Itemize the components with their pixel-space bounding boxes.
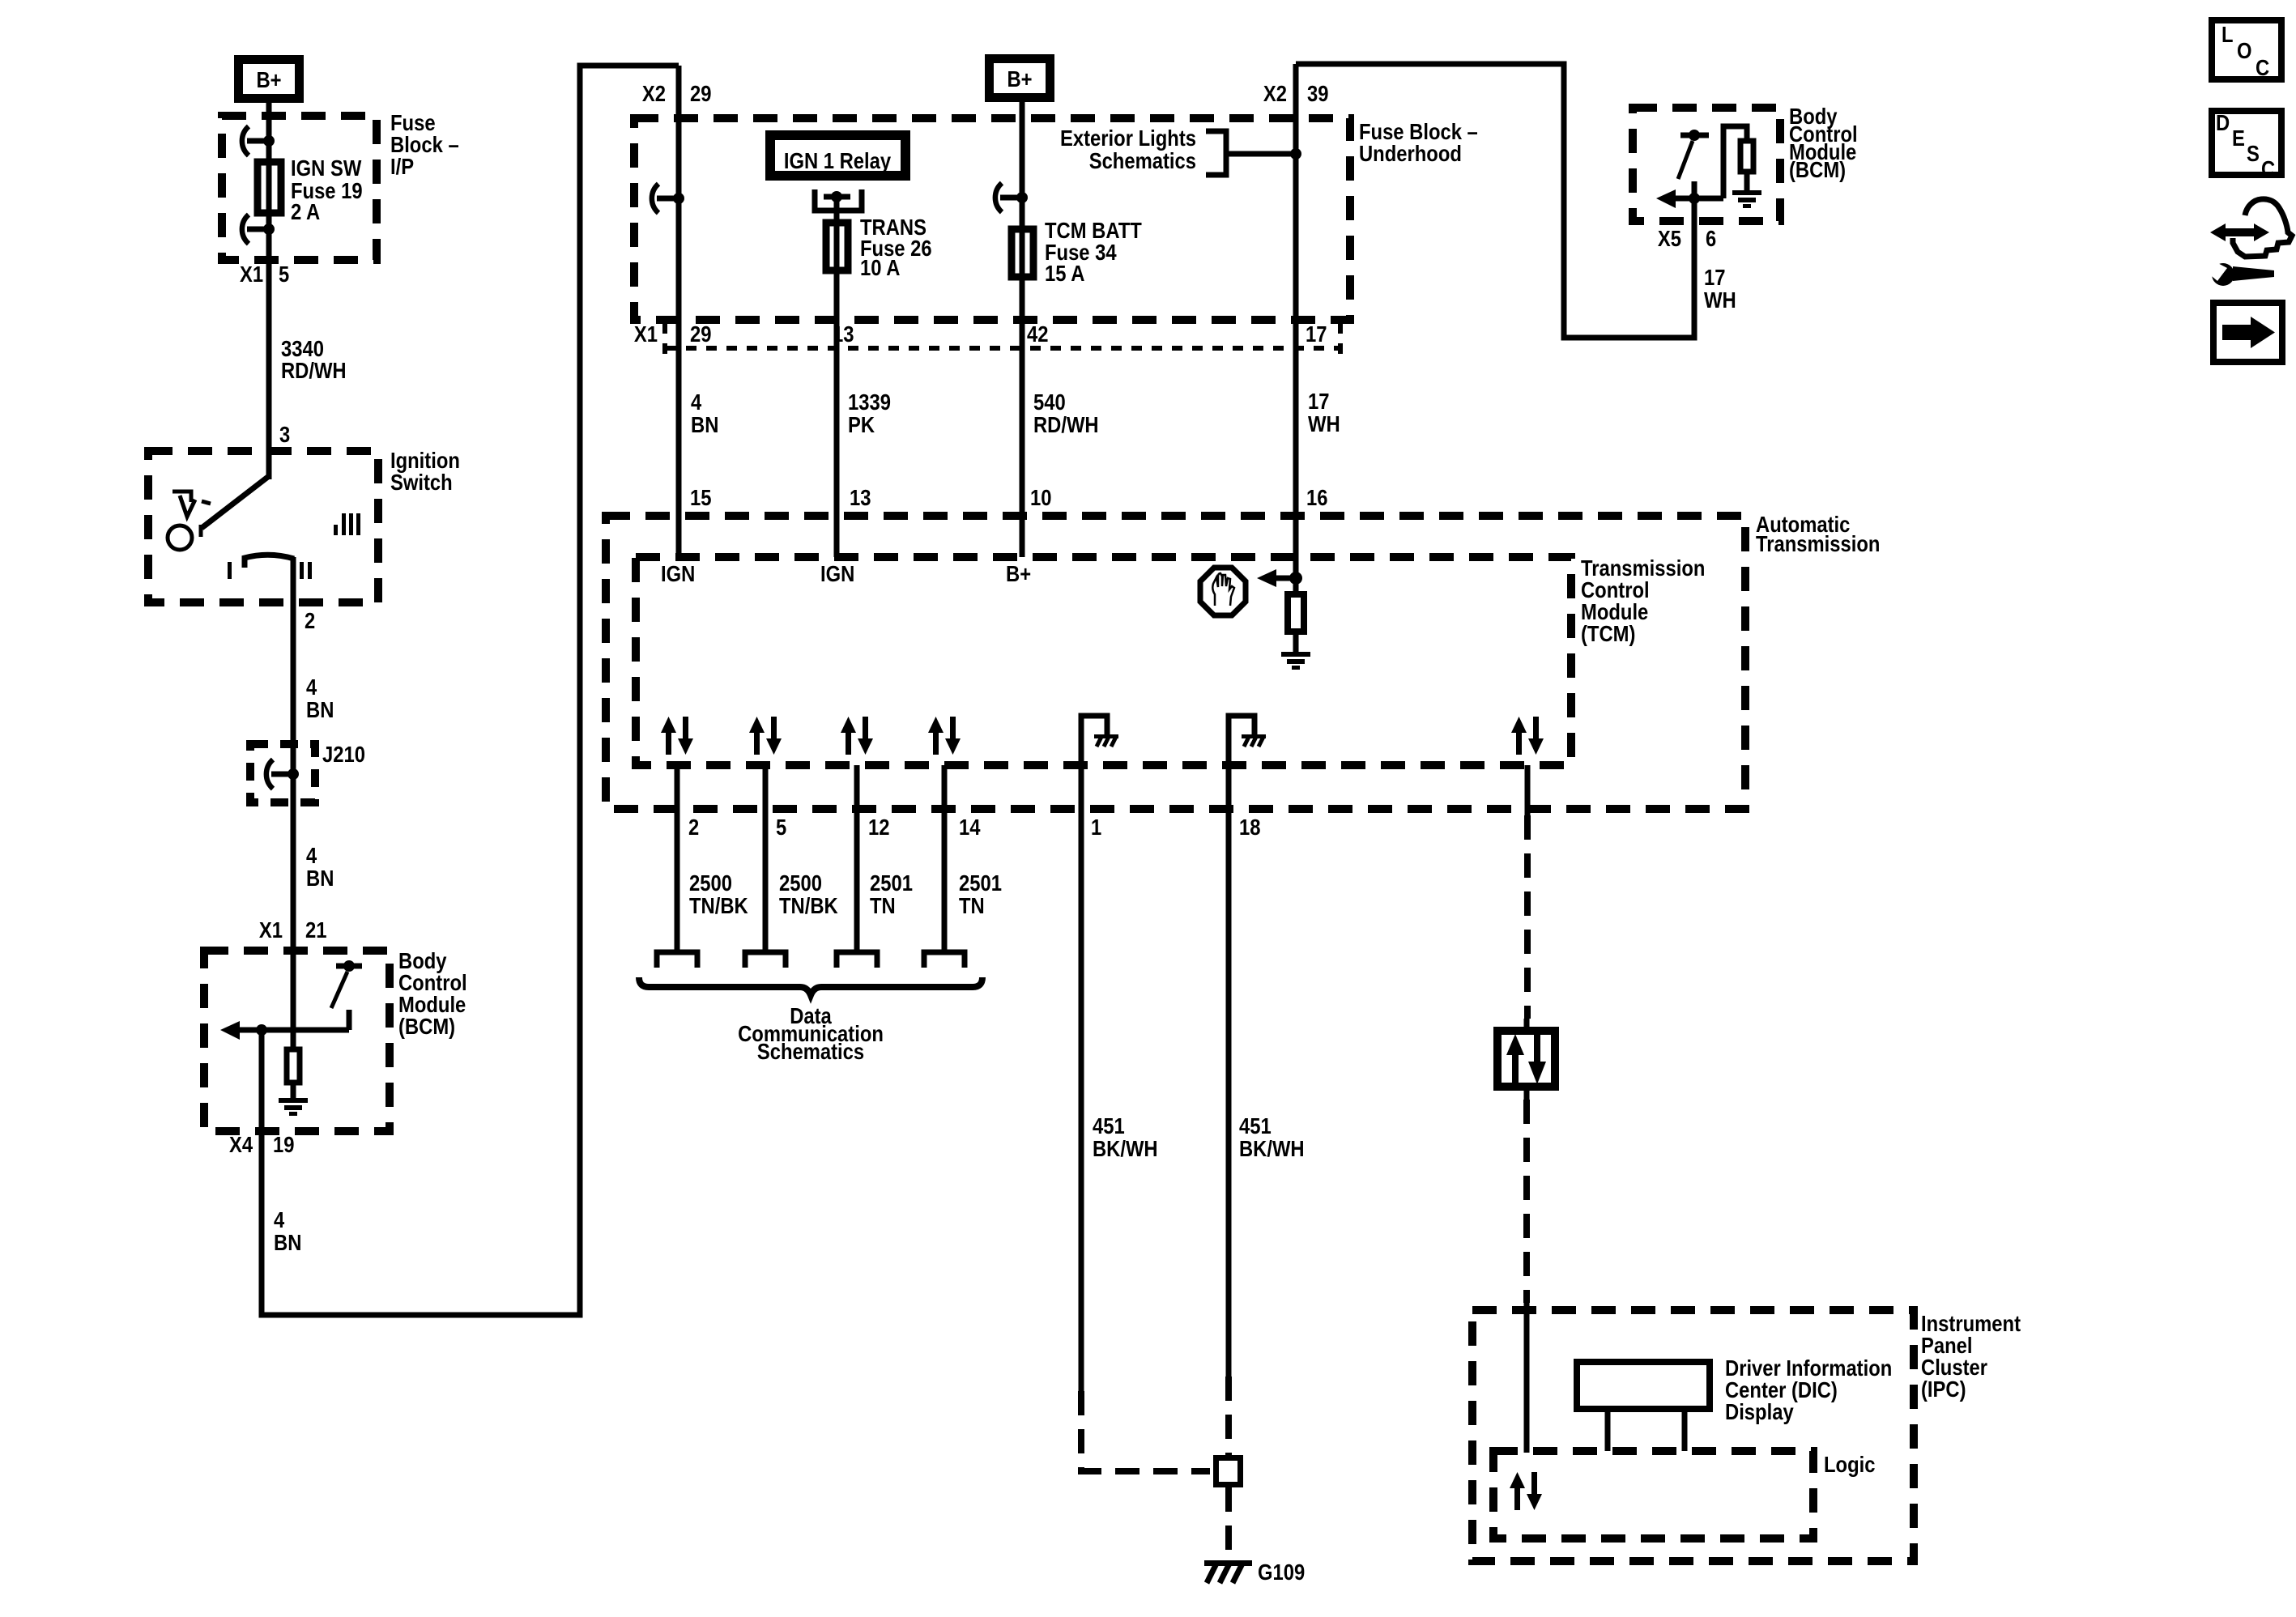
svg-text:RD/WH: RD/WH [1033, 412, 1099, 437]
svg-text:IGN: IGN [661, 561, 695, 586]
svg-text:1: 1 [1091, 815, 1101, 840]
label Body Control Module (BCM) left [398, 948, 467, 1039]
svg-text:WH: WH [1704, 287, 1736, 313]
svg-text:D: D [2216, 110, 2230, 135]
wire BCM X4-19 to fuse block underhood (long loop) [262, 66, 679, 1315]
connector X5 pin 6 [1658, 226, 1716, 251]
connector boundary tick left [662, 323, 667, 354]
svg-text:IGN SW: IGN SW [291, 155, 362, 181]
wire label 4 BN [274, 1207, 301, 1255]
svg-text:G109: G109 [1258, 1560, 1305, 1585]
svg-text:1339: 1339 [848, 389, 891, 415]
label Driver Information Center (DIC) Display [1725, 1355, 1892, 1424]
svg-text:WH: WH [1308, 411, 1340, 436]
wire label 2500 TN/BK pin 2 [689, 870, 748, 918]
wire label 451 BK/WH pin 1 [1093, 1113, 1158, 1161]
svg-text:(BCM): (BCM) [398, 1014, 455, 1039]
BCM internal ground [279, 1098, 308, 1116]
ignition switch blade [201, 476, 269, 537]
fuse 19 IGN SW 2A [258, 155, 363, 224]
wire TCM pin 14 [942, 765, 948, 952]
svg-text:13: 13 [850, 485, 871, 510]
svg-text:L: L [2221, 22, 2234, 47]
svg-text:21: 21 [305, 917, 327, 943]
ignition switch dashed box [148, 451, 378, 602]
B+ power symbol (left) [239, 60, 300, 99]
connector X4 pin 19 [229, 1132, 295, 1157]
wire ignition switch pin 2 to BCM [291, 557, 296, 1030]
connector terminal on wire 29 [652, 184, 684, 213]
wire TCM pin 5 [763, 765, 769, 952]
off-page bracket to exterior lights [1206, 131, 1301, 175]
svg-text:(IPC): (IPC) [1921, 1377, 1966, 1402]
connector X1 pin 21 [259, 917, 327, 943]
TCM serial data arrows pin 14 [928, 717, 961, 755]
svg-text:RD/WH: RD/WH [281, 358, 347, 383]
svg-text:IGN: IGN [820, 561, 854, 586]
svg-text:Exterior Lights: Exterior Lights [1060, 126, 1196, 151]
relay contact terminal [815, 189, 862, 211]
svg-text:BN: BN [306, 697, 334, 722]
wire label 4 BN [306, 674, 334, 722]
label Transmission Control Module (TCM) [1581, 555, 1705, 646]
svg-text:C: C [2256, 55, 2269, 80]
label Body Control Module (BCM) right [1789, 104, 1858, 182]
svg-text:O: O [2237, 38, 2252, 63]
TCM internal junction with arrow on pin 16 [1257, 569, 1302, 587]
svg-text:S: S [2247, 141, 2260, 166]
dashed wire splice to ground [1225, 1487, 1232, 1561]
TCM inner dashed box [636, 557, 1571, 765]
brace data communication [639, 977, 982, 995]
svg-text:Logic: Logic [1824, 1452, 1876, 1477]
svg-text:19: 19 [273, 1132, 295, 1157]
svg-text:4: 4 [306, 674, 317, 700]
BCM right internal ground [1732, 190, 1761, 208]
TCM serial data arrows pin 5 [749, 717, 782, 755]
off-page connector pin 5 [745, 952, 786, 968]
connector terminal on wire 42 [995, 183, 1028, 212]
svg-text:18: 18 [1239, 815, 1261, 840]
svg-text:2: 2 [688, 815, 699, 840]
TCM pin labels 2 5 12 14 1 18 [688, 815, 1261, 840]
svg-text:2500: 2500 [689, 870, 732, 896]
svg-text:2 A: 2 A [291, 199, 320, 224]
svg-text:3: 3 [279, 422, 290, 447]
switch position mark IIII [334, 513, 360, 535]
svg-text:I/P: I/P [390, 154, 414, 179]
svg-text:5: 5 [776, 815, 786, 840]
splice box [1216, 1458, 1241, 1485]
svg-text:B+: B+ [1007, 66, 1032, 91]
TCM input labels IGN IGN B+ [661, 561, 1031, 586]
wire label 4 BN [306, 843, 334, 891]
dashed wire link box to IPC [1523, 1100, 1530, 1303]
svg-text:X4: X4 [229, 1132, 253, 1157]
label Fuse Block Underhood [1359, 119, 1478, 166]
svg-text:B+: B+ [256, 67, 281, 92]
svg-text:IGN 1 Relay: IGN 1 Relay [784, 148, 892, 173]
svg-text:X2: X2 [642, 81, 666, 106]
svg-text:29: 29 [690, 81, 712, 106]
svg-text:15 A: 15 A [1045, 261, 1084, 286]
label Instrument Panel Cluster (IPC) [1921, 1311, 2021, 1402]
TCM serial data arrows pin 12 [841, 717, 873, 755]
svg-text:TN/BK: TN/BK [779, 893, 838, 918]
BCM internal rail with arrow [220, 1021, 349, 1040]
wire B+ to ignition switch [266, 103, 272, 479]
wire label 17 WH right [1704, 265, 1736, 313]
svg-text:6: 6 [1706, 226, 1716, 251]
dashed wire pin 1 to splice [1081, 1391, 1210, 1471]
logic dashed box [1493, 1451, 1813, 1538]
wire TCM pin 12 [854, 765, 860, 952]
label Automatic Transmission [1756, 512, 1880, 556]
svg-text:13: 13 [833, 321, 854, 347]
svg-text:39: 39 [1307, 81, 1329, 106]
wire TCM pin 18 451 BK/WH [1226, 765, 1232, 1377]
svg-text:C: C [2261, 156, 2275, 181]
wire 17 WH from BCM to X2-39 [1296, 64, 1694, 338]
svg-text:(TCM): (TCM) [1581, 621, 1635, 646]
margin icon arrow box [2213, 303, 2282, 362]
TCM internal ground return pin 18 [1229, 716, 1266, 765]
automatic transmission outer dashed box [606, 516, 1745, 809]
svg-text:B+: B+ [1006, 561, 1031, 586]
svg-text:BN: BN [274, 1230, 301, 1255]
label Fuse Block I/P [390, 110, 459, 179]
switch position mark II [300, 562, 312, 579]
wire label 2501 TN pin 12 [870, 870, 913, 918]
IGN 1 Relay label box [770, 135, 905, 176]
svg-text:TN: TN [959, 893, 985, 918]
splice J210 terminal [266, 760, 299, 789]
svg-text:4: 4 [274, 1207, 285, 1232]
connector dashed line X1 [666, 346, 1340, 351]
switch position mark I [228, 562, 232, 579]
svg-text:TN/BK: TN/BK [689, 893, 748, 918]
dashed wire pin 18 to splice [1225, 1377, 1232, 1455]
logic serial data arrows [1510, 1472, 1542, 1510]
svg-text:BN: BN [691, 412, 718, 437]
BCM internal switch [331, 960, 362, 1030]
svg-text:10 A: 10 A [860, 255, 900, 280]
TCM serial data arrows right [1511, 717, 1544, 755]
wire TCM pin 2 [675, 765, 680, 952]
label Data Communication Schematics [738, 1003, 884, 1064]
BCM (left) dashed box [204, 951, 390, 1131]
svg-text:15: 15 [690, 485, 712, 510]
BCM right internal switch [1678, 130, 1709, 198]
svg-text:2501: 2501 [959, 870, 1002, 896]
svg-text:451: 451 [1239, 1113, 1272, 1138]
BCM right rail with arrow [1656, 189, 1723, 208]
svg-text:Schematics: Schematics [757, 1039, 864, 1064]
TCM internal ground [1281, 652, 1310, 670]
dashed wire TCM to IPC logic [1525, 765, 1531, 815]
svg-text:Switch: Switch [390, 470, 453, 495]
B+ power symbol (middle) [990, 59, 1050, 98]
svg-text:E: E [2232, 126, 2245, 151]
splice J210 dashed box [250, 744, 315, 802]
wire label 451 BK/WH pin 18 [1239, 1113, 1305, 1161]
ground G109 [1204, 1560, 1252, 1583]
connector X2 pin 29 [642, 81, 712, 106]
TCM internal ground return pin 1 [1081, 716, 1118, 765]
svg-text:BN: BN [306, 866, 334, 891]
wire fuse block 39 to TCM pin 16 [1293, 64, 1299, 592]
TCM pin labels 15 13 10 16 [690, 485, 1328, 510]
label Ignition Switch [390, 448, 460, 495]
svg-text:Transmission: Transmission [1756, 531, 1880, 556]
svg-text:PK: PK [848, 412, 875, 437]
svg-text:TN: TN [870, 893, 896, 918]
wire label 17 WH [1308, 389, 1340, 436]
fuse block bottom connector row X1 [634, 321, 1327, 347]
svg-text:29: 29 [690, 321, 712, 347]
svg-text:(BCM): (BCM) [1789, 157, 1846, 182]
svg-text:5: 5 [279, 262, 289, 287]
svg-text:J210: J210 [322, 742, 365, 767]
IPC dashed box [1472, 1310, 1914, 1561]
off-page connector pin 14 [924, 952, 965, 968]
wire relay to TCM pin 13 [834, 197, 840, 557]
svg-text:X2: X2 [1263, 81, 1287, 106]
svg-text:BK/WH: BK/WH [1239, 1136, 1305, 1161]
svg-text:14: 14 [959, 815, 981, 840]
serial data link box [1497, 1019, 1555, 1100]
connector terminal top of fuse 19 [242, 126, 275, 155]
svg-text:17: 17 [1306, 321, 1327, 347]
switch wiper contact arc [245, 555, 294, 568]
TCM internal resistor [1288, 594, 1304, 652]
BCM (top right) dashed box [1633, 108, 1780, 221]
svg-text:2501: 2501 [870, 870, 913, 896]
svg-text:Display: Display [1725, 1399, 1794, 1424]
svg-text:2500: 2500 [779, 870, 822, 896]
wire B+ to TCM pin 10 [1020, 102, 1025, 557]
wire label 2501 TN pin 14 [959, 870, 1002, 918]
svg-text:X1: X1 [634, 321, 658, 347]
svg-text:X5: X5 [1658, 226, 1681, 251]
stop hand icon [1200, 568, 1246, 615]
wire X2-29 down to TCM pin 15 [676, 66, 682, 557]
TCM serial data arrows pin 2 [661, 717, 693, 755]
svg-text:42: 42 [1027, 321, 1049, 347]
connector terminal bottom of fuse 19 [242, 215, 275, 244]
svg-text:4: 4 [691, 389, 702, 415]
svg-text:17: 17 [1308, 389, 1330, 414]
margin icon DESC box [2212, 110, 2281, 181]
DIC display box [1577, 1362, 1710, 1451]
fuse block underhood dashed box [634, 118, 1350, 320]
connector boundary tick right [1338, 323, 1343, 354]
BCM pull-up resistor [287, 1030, 300, 1098]
svg-text:10: 10 [1030, 485, 1052, 510]
ignition key symbol [168, 491, 211, 550]
svg-text:BK/WH: BK/WH [1093, 1136, 1158, 1161]
svg-text:540: 540 [1033, 389, 1066, 415]
svg-text:Schematics: Schematics [1089, 148, 1196, 173]
connector X1 pin 5 [240, 262, 289, 287]
wire label 540 RD/WH [1033, 389, 1099, 437]
wire label 4 BN [691, 389, 718, 437]
fuse block I/P dashed box [222, 116, 377, 260]
off-page connector pin 2 [657, 952, 697, 968]
svg-text:451: 451 [1093, 1113, 1125, 1138]
margin icon hand with arrow and wrench [2208, 199, 2292, 286]
svg-text:X1: X1 [240, 262, 263, 287]
off-page connector pin 12 [837, 952, 877, 968]
svg-text:16: 16 [1306, 485, 1328, 510]
label Exterior Lights Schematics [1060, 126, 1196, 173]
svg-text:12: 12 [868, 815, 890, 840]
svg-text:2: 2 [305, 608, 315, 633]
wire into IPC logic [1524, 1303, 1530, 1453]
wire label 3340 RD/WH [281, 336, 347, 383]
svg-text:X1: X1 [259, 917, 283, 943]
wire TCM pin 1 451 BK/WH [1079, 765, 1084, 1391]
svg-text:Underhood: Underhood [1359, 141, 1462, 166]
wire label 1339 PK [848, 389, 891, 437]
BCM right resistor branch [1723, 126, 1753, 198]
fuse 26 TRANS 10A [826, 215, 932, 280]
fuse 34 TCM BATT 15A [1012, 218, 1142, 286]
connector X2 pin 39 [1263, 81, 1329, 106]
wire label 2500 TN/BK pin 5 [779, 870, 838, 918]
svg-text:17: 17 [1704, 265, 1726, 290]
margin icon LOC box [2212, 20, 2281, 80]
svg-text:4: 4 [306, 843, 317, 868]
